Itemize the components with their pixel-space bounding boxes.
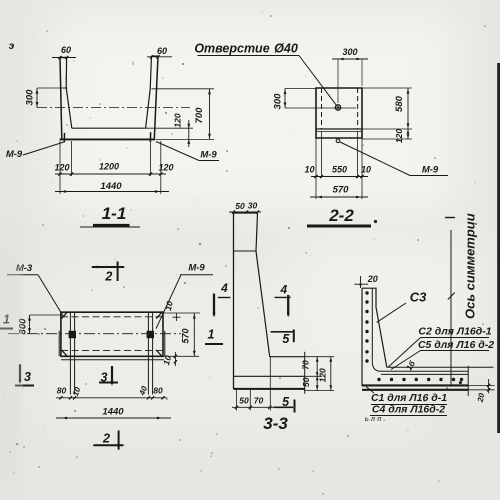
plan hidden line top (61, 316, 163, 318)
svg-text:700: 700 (194, 107, 205, 124)
extension line (321, 131, 323, 178)
svg-text:4: 4 (279, 282, 287, 296)
svg-text:э: э (9, 41, 15, 52)
section 3-3 left edge (233, 213, 235, 389)
detail outer contour top (362, 288, 387, 367)
svg-text:5: 5 (282, 332, 290, 346)
svg-text:2-2: 2-2 (328, 206, 354, 225)
dimension row 120 / 1200 / 120 (55, 173, 166, 175)
plan right leg line / extension (147, 312, 149, 394)
extension line left inner (71, 141, 73, 176)
detail slab bottom line 2 (362, 389, 468, 391)
svg-text:1-1: 1-1 (102, 204, 127, 223)
dimension row 10 / 550 / 10 (311, 176, 368, 178)
label M-9 with leader (340, 142, 410, 176)
section 1-1 right leg outer edge (154, 56, 158, 139)
dimension 300 (top, hole to edge) (337, 59, 339, 103)
detail slab top line (387, 366, 494, 368)
dimension 20 (right end) (488, 379, 490, 393)
detail slab right end (467, 366, 469, 396)
svg-text:М-9: М-9 (200, 150, 217, 161)
dimension 120 (right lower) (362, 128, 412, 130)
svg-text:120: 120 (54, 163, 69, 173)
svg-text:¹: ¹ (132, 62, 134, 68)
plate edge marks left (58, 331, 60, 356)
dimension 10 (top right corner) (163, 312, 200, 314)
dimension 60 (left leg top width) (52, 57, 76, 59)
dimension 120 (3-3 right overall) (330, 357, 332, 391)
section 1-1 left leg top edge (59, 57, 67, 59)
plan hidden line bottom (61, 349, 163, 351)
svg-text:50: 50 (239, 396, 249, 406)
svg-text:2: 2 (102, 432, 110, 446)
svg-text:300: 300 (18, 318, 29, 335)
section 2-2 outline rectangle (316, 88, 362, 138)
detail slab bottom line 1 (362, 384, 468, 386)
axis of symmetry line (450, 230, 452, 385)
section 3-3 base top line (234, 375, 305, 377)
section 1-1 left leg inner edge (66, 58, 72, 129)
dimension 300 (plan left) (30, 314, 61, 316)
extension line right (468, 384, 494, 386)
svg-text:120: 120 (173, 113, 183, 127)
dimension row 50 / 70 (3-3 bottom) (232, 406, 274, 408)
dimension 70 and 50 (3-3 right) (305, 356, 334, 358)
dimension 10 (bottom right) (174, 352, 176, 366)
svg-text:3: 3 (24, 370, 31, 384)
svg-text:ь л п .: ь л п . (365, 416, 386, 423)
svg-text:4: 4 (220, 281, 228, 295)
dimension 570 (310, 196, 368, 198)
svg-text:Ось симметрии: Ось симметрии (463, 213, 478, 319)
rebar dots (vertical run) (365, 291, 368, 294)
dimension 700 (overall height right) (152, 88, 215, 90)
section mark 5 (top) (271, 331, 293, 333)
plan left leg line / extension (69, 312, 71, 394)
svg-text:50: 50 (235, 201, 245, 211)
svg-text:580: 580 (394, 95, 405, 112)
svg-text:1440: 1440 (102, 407, 124, 418)
section 3-3 foot top edge (270, 356, 305, 358)
section 1-1 bottom edge (60, 138, 156, 140)
extension line right (160, 141, 162, 194)
stray dash right of title (445, 217, 455, 219)
section 1-1 left leg outer edge (60, 58, 62, 140)
section 3-3 top edge (234, 212, 258, 214)
svg-text:3-3: 3-3 (263, 414, 288, 433)
svg-text:60: 60 (61, 45, 71, 55)
section 1-1 web top line (72, 127, 146, 129)
dimension row 50 / 30 (3-3 top) (229, 211, 261, 213)
corner weld marks (62, 312, 68, 319)
extension line right inner (150, 142, 152, 176)
dimension 20 (detail top) (354, 283, 368, 285)
hole circle (335, 105, 340, 110)
svg-text:1: 1 (208, 328, 215, 342)
svg-text:30: 30 (248, 201, 258, 211)
plan right leg line 2 / extension (152, 312, 154, 394)
svg-text:20: 20 (367, 274, 378, 284)
svg-text:80: 80 (153, 386, 163, 396)
section 1-1 right anchor M-9 tick (149, 132, 151, 142)
section 1-1 right leg inner edge (146, 56, 152, 128)
anchor circle bottom (336, 139, 340, 143)
plan left leg line 2 / extension (74, 312, 76, 394)
svg-text:70: 70 (301, 360, 311, 370)
detail rebar bend line 1 (372, 362, 468, 371)
svg-text:М-9: М-9 (188, 263, 205, 274)
svg-text:2: 2 (104, 270, 112, 284)
plan horizontal centerline (8, 333, 181, 335)
scan shading left margin (0, 230, 14, 500)
bottom-left smudges (16, 443, 19, 446)
dot after title (374, 220, 377, 223)
svg-text:70: 70 (254, 396, 264, 406)
svg-text:Отверстие: Отверстие (194, 42, 269, 56)
section 1-1 left leg taper break line (63, 87, 68, 89)
detail rebar line 2 (381, 373, 468, 375)
section mark 2 (bottom) (93, 444, 123, 446)
extension line (236, 389, 238, 411)
svg-text:С3: С3 (410, 290, 427, 305)
svg-text:60: 60 (157, 46, 167, 56)
svg-text:120: 120 (394, 129, 404, 143)
section mark 3 (left) (19, 364, 21, 382)
section 2-2 hidden line left (321, 88, 323, 129)
extension line (361, 138, 363, 199)
svg-text:М-9: М-9 (422, 165, 439, 176)
dimension row 80 / 10 ... 40 / 80 (plan bottom) (56, 397, 167, 399)
extension line right (468, 389, 494, 391)
svg-text:С5 для Л16 д-2: С5 для Л16 д-2 (418, 339, 494, 351)
section 2-2 web top line (316, 128, 362, 130)
section 2-2 hidden line right (357, 88, 359, 129)
svg-text:Ø40: Ø40 (274, 42, 298, 56)
extension line left (59, 141, 61, 194)
dimension 580 (right) (362, 87, 412, 89)
dimension 1440 (overall width) (55, 191, 169, 193)
section mark 2 (top) (92, 266, 124, 268)
scan frame edge right (497, 63, 500, 433)
plan lower parallel edge (61, 359, 164, 361)
section 1-1 left anchor M-9 tick (63, 133, 65, 143)
extension line (269, 357, 271, 411)
dimension 300 (left, top of wall to axis) (36, 88, 38, 108)
extension line (249, 389, 251, 411)
section 3-3 sloped edge (256, 251, 270, 357)
rebar dots (horizontal run) (377, 378, 380, 381)
svg-text:570: 570 (181, 328, 191, 343)
dimension 300 (left) (285, 88, 316, 90)
svg-text:300: 300 (342, 47, 357, 57)
dimension 60 (right leg top width) (147, 56, 172, 58)
section 3-3 right edge upper (256, 213, 258, 251)
extension line (357, 131, 359, 178)
plan left anchor plate (solid) (69, 331, 76, 338)
svg-text:80: 80 (57, 386, 67, 396)
dimension 120 (web thickness) (146, 127, 193, 129)
svg-text:1440: 1440 (100, 181, 122, 192)
svg-text:М-9: М-9 (6, 149, 23, 160)
section 1-1 horizontal centerline (37, 107, 190, 109)
detail left edge (361, 288, 363, 386)
svg-text:300: 300 (273, 93, 284, 110)
svg-text:С2 для Л16д-1: С2 для Л16д-1 (418, 326, 491, 338)
svg-text:50: 50 (301, 377, 311, 387)
svg-text:570: 570 (333, 185, 350, 196)
dimension 570 (plan right) (164, 355, 199, 357)
svg-text:120: 120 (158, 163, 173, 173)
svg-text:300: 300 (25, 89, 36, 106)
svg-text:120: 120 (318, 368, 328, 382)
svg-text:С4 для Л16д-2: С4 для Л16д-2 (372, 404, 445, 416)
svg-text:10: 10 (361, 165, 371, 175)
plan outline rectangle (61, 312, 163, 356)
svg-text:1200: 1200 (99, 162, 119, 172)
section 3-3 bottom edge (234, 388, 305, 390)
svg-text:550: 550 (332, 165, 347, 175)
section 1-1 right leg top edge (151, 55, 159, 57)
section 3-3 foot right end (304, 352, 306, 394)
dimension 1440 (plan bottom) (56, 417, 171, 419)
svg-text:М-3: М-3 (16, 263, 33, 274)
extension line (315, 138, 317, 199)
svg-text:С1 для Л16 д-1: С1 для Л16 д-1 (371, 392, 447, 404)
detail inner vertical line (371, 288, 373, 362)
section 2-2 web inner line (316, 131, 362, 133)
svg-text:10: 10 (304, 165, 314, 175)
plan right anchor plate (solid) (147, 331, 154, 338)
section 3-3 joint line (234, 250, 257, 252)
